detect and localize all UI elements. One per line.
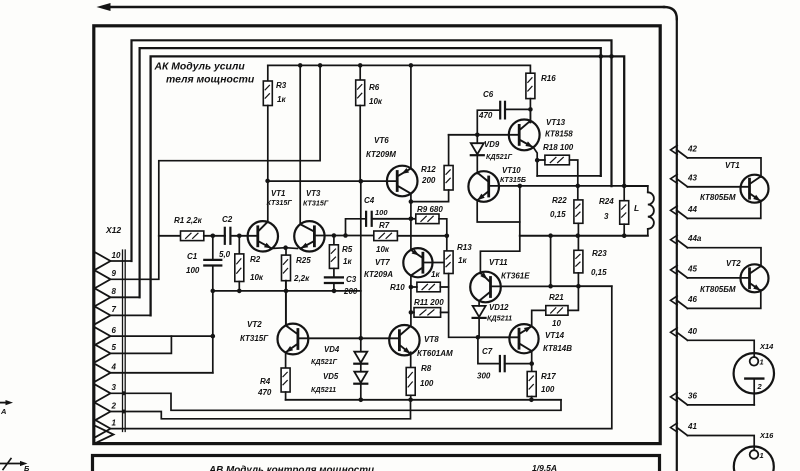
svg-text:41: 41: [687, 422, 697, 431]
transistor VT2: [278, 324, 309, 355]
wire +rail: [268, 65, 531, 73]
resistor R17: [527, 372, 536, 397]
wire pin8 to frame3: [111, 296, 140, 298]
wire rail to VT6 emitter: [410, 65, 412, 168]
wire pin42 to VT1 collector: [688, 158, 762, 177]
X12 pin 3 chevron: [96, 385, 111, 402]
resistor R10: [417, 282, 440, 292]
wire VT14 collector to R21: [532, 310, 546, 325]
svg-text:10к: 10к: [369, 97, 383, 106]
wire pin41 to X16: [688, 436, 755, 451]
svg-text:0,15: 0,15: [550, 210, 566, 219]
wire pin46 to VT2 emitter: [688, 290, 761, 308]
capacitor C6: [499, 102, 501, 119]
pin 45: [671, 265, 678, 274]
transistor VT2 external: [741, 264, 769, 292]
svg-text:С3: С3: [346, 275, 357, 284]
svg-text:R21: R21: [549, 293, 564, 302]
dot output-L: [622, 233, 627, 238]
svg-text:R12: R12: [421, 165, 436, 174]
svg-text:7: 7: [112, 305, 117, 314]
svg-text:1к: 1к: [343, 257, 352, 266]
wire VT13 collector: [529, 109, 531, 122]
X12 pin 7 chevron: [96, 307, 111, 324]
svg-text:R22: R22: [552, 196, 567, 205]
wire C2 to VT1 base: [230, 235, 257, 237]
svg-text:КТ805БМ: КТ805БМ: [700, 285, 736, 294]
pin 40: [671, 328, 678, 337]
pin 44a: [671, 235, 678, 244]
svg-text:С6: С6: [483, 90, 494, 99]
svg-text:КТ8158: КТ8158: [545, 130, 573, 139]
wire pin6 to C1 column: [111, 335, 213, 337]
svg-text:R23: R23: [592, 249, 607, 258]
X12 pin 1 chevron: [96, 420, 111, 437]
diode VD9: [476, 135, 478, 143]
transistor VT7: [403, 248, 432, 277]
wire VT6 collector column: [410, 195, 412, 250]
transistor VT11: [470, 272, 501, 303]
resistor R6: [359, 65, 361, 80]
wire C4 riser: [346, 219, 367, 236]
svg-text:10: 10: [112, 251, 121, 260]
wire R1 to C2: [204, 235, 225, 237]
resistor R16: [526, 73, 535, 98]
connector X16: [734, 447, 774, 471]
svg-text:R4: R4: [260, 377, 271, 386]
svg-text:R10: R10: [390, 283, 405, 292]
transistor VT8: [389, 325, 419, 355]
resistor R21: [546, 306, 568, 316]
svg-text:VD4: VD4: [324, 345, 340, 354]
wire VT7 collector column: [410, 277, 412, 326]
dots pins 3,2 on connector body: [122, 391, 126, 395]
transistor VT14: [509, 324, 538, 353]
svg-text:45: 45: [687, 264, 697, 273]
svg-text:VT2: VT2: [247, 320, 262, 329]
svg-text:10к: 10к: [250, 273, 264, 282]
resistor R3: [267, 65, 269, 81]
svg-text:С4: С4: [364, 196, 375, 205]
X12 pin 10 chevron: [96, 253, 111, 270]
wire pin9 input riser: [111, 65, 321, 279]
wire output line: [520, 235, 648, 237]
dot R7-R13 junction: [445, 234, 450, 239]
svg-text:42: 42: [687, 144, 697, 153]
right connector bus X (pins 42-41): [676, 19, 678, 471]
svg-text:VT3: VT3: [306, 189, 321, 198]
pin 36: [671, 392, 678, 401]
wire C7 right: [505, 363, 532, 365]
svg-text:R17: R17: [541, 372, 556, 381]
resistor R9: [416, 214, 439, 224]
resistor R5: [333, 236, 335, 245]
wire pin2 run: [111, 400, 411, 419]
dots VT10 base line: [518, 184, 523, 189]
wire VD bias column: [360, 181, 362, 352]
svg-text:6: 6: [112, 326, 117, 335]
svg-text:1: 1: [760, 358, 764, 367]
wire pin7 net: [151, 56, 625, 315]
svg-text:R24: R24: [599, 197, 614, 206]
svg-text:АВ Модуль контроля мощности: АВ Модуль контроля мощности: [208, 465, 374, 471]
wire R7 right: [397, 235, 446, 237]
resistor R8: [410, 352, 412, 367]
capacitor C1: [212, 236, 214, 260]
svg-text:1: 1: [760, 451, 764, 460]
wire VT10 base line: [489, 185, 648, 187]
svg-text:R2: R2: [250, 255, 261, 264]
wire VT13em to pin8 riser: [537, 175, 601, 177]
wire VT11 base: [491, 285, 551, 287]
wire VT3 collector: [299, 65, 301, 224]
wire pin44a to VT2 collector: [688, 248, 762, 267]
svg-text:3: 3: [604, 212, 609, 221]
wire VT3 base line: [315, 235, 374, 237]
wire pin7 to riser: [111, 314, 151, 316]
svg-text:VT11: VT11: [489, 258, 508, 267]
dot VD4 top: [359, 336, 364, 341]
resistor R25: [285, 248, 287, 255]
svg-text:R11 200: R11 200: [414, 298, 444, 307]
dot VD9 top node: [475, 133, 480, 138]
resistor R24: [623, 186, 625, 201]
X12 pin 8 chevron: [96, 289, 111, 306]
flow arrow A: [0, 402, 9, 404]
svg-text:АК Модуль усили: АК Модуль усили: [154, 62, 246, 73]
svg-text:С1: С1: [187, 252, 198, 261]
svg-text:VT14: VT14: [545, 331, 565, 340]
svg-text:X12: X12: [105, 225, 121, 235]
svg-text:R16: R16: [541, 74, 556, 83]
dot R22 bottom: [576, 233, 581, 238]
svg-text:R8: R8: [421, 364, 432, 373]
wire VT13 emitter lead: [533, 147, 537, 176]
svg-text:R18 100: R18 100: [543, 143, 574, 152]
svg-text:R6: R6: [369, 83, 380, 92]
dot R23 bottom: [576, 284, 581, 289]
wire VD12 node to VT14 base: [478, 336, 519, 338]
resistor R13: [444, 251, 453, 274]
X12 pin 5 chevron: [96, 345, 111, 362]
svg-text:R3: R3: [276, 81, 287, 90]
diode VD12: [478, 301, 480, 306]
svg-text:С2: С2: [222, 215, 233, 224]
svg-text:4: 4: [111, 363, 117, 372]
svg-text:КТ315Г: КТ315Г: [240, 334, 269, 343]
svg-text:VT13: VT13: [546, 118, 566, 127]
wire pin43 to VT1 base: [688, 186, 750, 188]
dots on feedback line: [237, 289, 242, 294]
svg-text:КД5211: КД5211: [311, 385, 336, 394]
svg-text:2,2к: 2,2к: [293, 274, 310, 283]
resistor R11: [414, 308, 441, 318]
dot C7-VT14em: [529, 361, 534, 366]
wire pin44 to VT1 emitter: [688, 201, 761, 219]
svg-text:1к: 1к: [431, 270, 440, 279]
wire pin4: [111, 372, 213, 374]
X12 pin 6 chevron: [96, 328, 111, 345]
wire pin40 to X14: [688, 340, 755, 357]
svg-text:Х16: Х16: [759, 431, 774, 440]
svg-text:КТ814В: КТ814В: [543, 344, 572, 353]
svg-text:КТ209А: КТ209А: [364, 270, 393, 279]
svg-text:Х14: Х14: [759, 342, 774, 351]
dots R10 R11 taps: [409, 285, 414, 290]
svg-text:470: 470: [478, 111, 493, 120]
dot VT6 base left: [265, 179, 270, 184]
resistor R1: [181, 231, 204, 241]
junction dots on pin7 wire: [599, 54, 604, 59]
wire VT2-VT8 base line: [298, 337, 400, 339]
svg-text:VT8: VT8: [424, 335, 439, 344]
wire pin36 to X14 pin2: [688, 404, 755, 406]
capacitor C7: [499, 356, 501, 371]
svg-text:VD9: VD9: [484, 140, 500, 149]
svg-text:3: 3: [112, 383, 117, 392]
svg-text:КД5211: КД5211: [487, 314, 512, 323]
wire pin1 run to R23 node: [111, 286, 612, 428]
svg-text:R25: R25: [296, 256, 311, 265]
wire ground line R4: [286, 399, 561, 401]
svg-text:R1 2,2к: R1 2,2к: [174, 216, 203, 225]
wire R13-R10-R11 column: [449, 287, 478, 337]
svg-text:КТ601АМ: КТ601АМ: [417, 349, 453, 358]
wire protection vertical: [480, 186, 519, 274]
transistor VT6: [387, 166, 418, 197]
svg-text:R9 680: R9 680: [417, 205, 443, 214]
dot C2-R2-VT1 node: [237, 234, 242, 239]
svg-text:С7: С7: [482, 347, 493, 356]
capacitor C4: [365, 212, 367, 226]
wire R23 bottom node: [551, 285, 612, 287]
wire feedback line: [213, 290, 361, 292]
svg-text:36: 36: [688, 391, 697, 400]
svg-text:46: 46: [687, 295, 697, 304]
resistor R18: [545, 155, 570, 165]
wire C7 drop: [478, 337, 500, 363]
wire pin45 to VT2 base: [688, 277, 750, 279]
wire VT14 emitter: [531, 352, 533, 372]
wire C6 right to R16: [505, 108, 530, 110]
dot VT13 emitter node: [535, 158, 540, 163]
outer module box: [94, 26, 660, 444]
X12 end chevron: [96, 426, 114, 443]
top feedback wire with left arrowhead: [109, 6, 664, 8]
resistor R4: [285, 353, 287, 369]
wire input node: [159, 235, 181, 237]
transistor VT1 external: [741, 175, 769, 203]
connector X14: [734, 353, 774, 393]
svg-text:VT1: VT1: [725, 161, 740, 170]
wire VT6 base line: [268, 180, 398, 182]
svg-text:40: 40: [687, 327, 697, 336]
svg-text:VT2: VT2: [726, 259, 741, 268]
svg-text:8: 8: [112, 287, 117, 296]
capacitor C2: [224, 228, 226, 244]
resistor R2: [238, 236, 240, 254]
svg-text:10: 10: [552, 319, 561, 328]
svg-text:200: 200: [421, 176, 436, 185]
svg-text:2: 2: [757, 382, 763, 391]
svg-text:43: 43: [687, 173, 697, 182]
svg-text:КТ361Е: КТ361Е: [501, 272, 530, 281]
capacitor C3: [325, 276, 343, 278]
svg-text:470: 470: [257, 388, 272, 397]
svg-text:VT1: VT1: [271, 189, 285, 198]
pin 46: [671, 296, 678, 305]
svg-text:1к: 1к: [458, 256, 467, 265]
dots C1 column: [211, 289, 216, 294]
transistor VT13: [509, 119, 540, 150]
transistor VT10: [468, 171, 499, 202]
svg-text:КД521Г: КД521Г: [486, 152, 513, 161]
dots R5 C4 taps: [332, 233, 337, 238]
svg-text:А: А: [0, 407, 6, 416]
dots ground line: [359, 398, 364, 403]
svg-text:КТ209М: КТ209М: [366, 150, 396, 159]
X12 pin 2 chevron: [96, 403, 111, 420]
wire VT13 base line: [449, 134, 520, 136]
wire VT10 emitter link: [477, 201, 520, 222]
svg-text:VD12: VD12: [489, 303, 509, 312]
svg-text:9: 9: [112, 269, 117, 278]
dots VT6 collector column: [409, 199, 414, 204]
lower module box: [93, 456, 660, 471]
wire C6 left leg: [477, 110, 500, 135]
resistor R22: [574, 200, 583, 223]
svg-text:5,0: 5,0: [219, 250, 231, 259]
diode VD4: [354, 352, 367, 363]
svg-text:Б: Б: [24, 464, 30, 471]
wire R9 right to R13 top: [439, 219, 447, 251]
pin 43: [671, 174, 678, 183]
svg-text:200: 200: [343, 287, 358, 296]
svg-text:100: 100: [375, 208, 388, 217]
pin 42: [671, 145, 678, 154]
diode VD5: [354, 372, 367, 383]
transistor VT1: [248, 221, 278, 251]
rail junction dots: [298, 63, 303, 68]
svg-text:1: 1: [112, 418, 117, 427]
svg-text:100: 100: [420, 379, 434, 388]
pin 44: [671, 206, 678, 215]
wire frame2 pin10 net: [132, 40, 612, 261]
wire VT7 base: [423, 262, 444, 264]
wire VT11 base riser: [550, 236, 552, 287]
wire pin10 to frame2: [111, 260, 132, 262]
resistor R23: [577, 236, 579, 251]
svg-text:44a: 44a: [687, 234, 702, 243]
svg-text:КТ315Б: КТ315Б: [500, 175, 526, 184]
X12 pin 4 chevron: [96, 364, 111, 381]
wire frame3 pin8 net: [140, 48, 601, 297]
svg-text:VT7: VT7: [375, 258, 390, 267]
svg-text:VT10: VT10: [502, 166, 521, 175]
wire VT2 collector: [285, 281, 287, 325]
svg-text:100: 100: [186, 266, 200, 275]
svg-text:VT6: VT6: [374, 136, 389, 145]
svg-text:0,15: 0,15: [591, 268, 607, 277]
svg-text:КТ315Г: КТ315Г: [267, 198, 293, 207]
svg-text:300: 300: [477, 372, 491, 381]
X12 pin 9 chevron: [96, 271, 111, 288]
svg-text:44: 44: [687, 205, 697, 214]
X14 pin2 bar: [745, 377, 763, 379]
flow arrow B: [0, 463, 23, 465]
transistor VT3: [294, 221, 324, 251]
wire pin3 ground run: [111, 393, 562, 410]
svg-text:КД521Г: КД521Г: [311, 357, 338, 366]
wire C4 to R9: [372, 218, 416, 220]
resistor R7: [374, 231, 398, 241]
connector X12 body double line: [122, 250, 124, 432]
dot riser top: [548, 233, 553, 238]
wire VT1 VT3 emitters join: [272, 247, 298, 250]
dot emitters: [283, 245, 288, 250]
svg-text:1/9.5А: 1/9.5А: [532, 463, 557, 471]
svg-text:КТ805БМ: КТ805БМ: [700, 193, 736, 202]
pin 41: [671, 423, 678, 432]
dot R6-VD column: [359, 179, 364, 184]
svg-text:R7: R7: [379, 221, 390, 230]
dot VD12 bottom node: [476, 335, 481, 340]
inductor L: [624, 186, 648, 192]
dot C4 line on VT6 column: [409, 217, 414, 222]
svg-text:КТ315Г: КТ315Г: [303, 199, 329, 208]
svg-text:5: 5: [112, 343, 117, 352]
svg-text:L: L: [634, 203, 639, 213]
dot C1 top: [211, 234, 216, 239]
svg-text:10к: 10к: [376, 245, 390, 254]
dot VT11 base node: [548, 284, 553, 289]
svg-text:100: 100: [541, 385, 555, 394]
resistor R12: [448, 135, 450, 166]
svg-text:R13: R13: [457, 243, 472, 252]
svg-text:теля мощности: теля мощности: [166, 75, 255, 86]
svg-text:1к: 1к: [277, 95, 286, 104]
dot R16-VT13 node: [528, 107, 533, 112]
svg-text:R5: R5: [342, 245, 353, 254]
svg-text:VD5: VD5: [323, 372, 339, 381]
wire pin5 with riser: [111, 336, 172, 353]
svg-text:2: 2: [111, 401, 117, 410]
